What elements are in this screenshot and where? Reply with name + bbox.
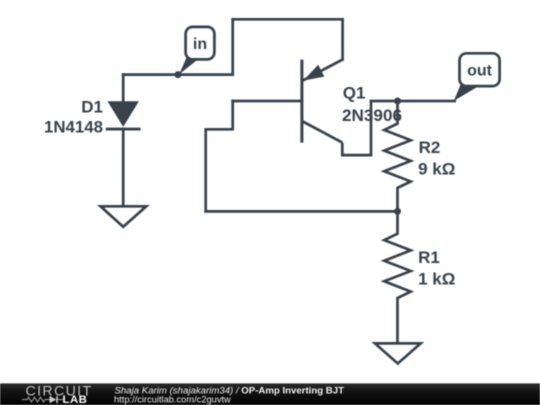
wire base horizontal: [233, 100, 302, 103]
ground (right, under R1): [375, 343, 421, 363]
junction node in: [175, 71, 182, 78]
svg-text:D1: D1: [81, 98, 103, 117]
svg-text:1 kΩ: 1 kΩ: [418, 270, 455, 289]
svg-text:LAB: LAB: [63, 394, 88, 405]
junction node R2/R1/feedback: [394, 208, 401, 215]
svg-text:9 kΩ: 9 kΩ: [418, 159, 455, 178]
svg-text:http://circuitlab.com/c2guvtw: http://circuitlab.com/c2guvtw: [114, 394, 231, 404]
node flag in: [179, 27, 214, 74]
ground (left, under D1): [101, 206, 147, 227]
wire feedback bottom horizontal: [206, 210, 398, 213]
wire diode to ground: [122, 129, 125, 206]
node flag out: [454, 53, 500, 101]
junction node out/R2: [394, 98, 401, 105]
svg-text:R1: R1: [418, 248, 440, 267]
diode D1: [106, 101, 141, 129]
svg-text:in: in: [193, 36, 207, 53]
emitter arrow: [303, 65, 324, 81]
wire in-net top horizontal: [233, 18, 343, 21]
logo resistor/diode glyph: [22, 397, 63, 402]
svg-text:Q1: Q1: [343, 84, 366, 103]
wire in-net up left of loop: [231, 19, 234, 74]
resistor R1: [384, 211, 411, 343]
wire feedback step down: [206, 101, 233, 211]
svg-text:R2: R2: [419, 138, 441, 157]
footer bar: [0, 383, 540, 405]
wire out horizontal: [371, 100, 455, 103]
transistor Q1: [302, 60, 371, 156]
wire in-net to diode: [122, 75, 125, 102]
svg-text:2N3906: 2N3906: [342, 106, 402, 125]
collector diagonal: [302, 121, 342, 143]
wire emitter lead vertical: [341, 19, 344, 59]
base bar: [300, 60, 303, 143]
resistor R2: [384, 101, 411, 211]
wire in-net horizontal: [123, 73, 233, 76]
collector lead: [342, 101, 371, 155]
emitter diagonal: [303, 60, 343, 81]
svg-text:1N4148: 1N4148: [44, 118, 103, 137]
svg-text:out: out: [467, 63, 493, 80]
